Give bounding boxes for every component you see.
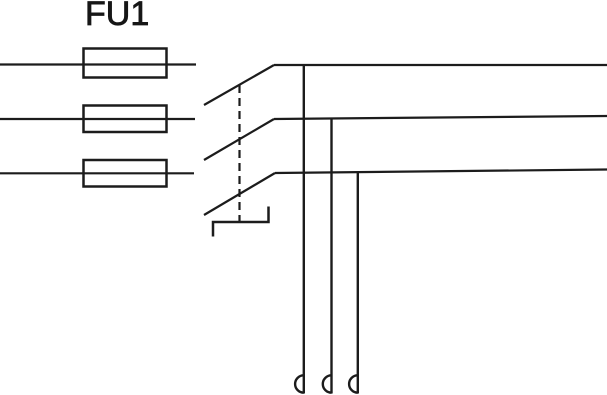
- switch blade pole 2: [204, 119, 274, 160]
- wire output 1: [274, 64, 607, 66]
- switch blade pole 3: [204, 173, 275, 215]
- operating handle: [213, 207, 269, 237]
- wire output 2: [274, 116, 607, 119]
- wire phase L1 input: [0, 63, 196, 65]
- wire phase L3 input: [0, 172, 194, 174]
- vertical wire 2: [330, 119, 332, 394]
- switch blade pole 1: [204, 65, 274, 105]
- socket contact 3: [349, 375, 358, 392]
- wire phase L2 input: [0, 118, 195, 120]
- wire output 3: [275, 170, 607, 174]
- fuse FU1 pole 3: [84, 160, 167, 187]
- socket contact 2: [323, 375, 332, 392]
- vertical wire 3: [357, 173, 359, 394]
- svg-text:FU1: FU1: [85, 0, 149, 33]
- socket contact 1: [295, 375, 304, 392]
- fuse FU1 pole 2: [84, 106, 167, 133]
- mechanical linkage (dashed): [238, 85, 240, 222]
- vertical wire 1: [303, 65, 305, 394]
- fuse FU1 pole 1: [84, 49, 167, 78]
